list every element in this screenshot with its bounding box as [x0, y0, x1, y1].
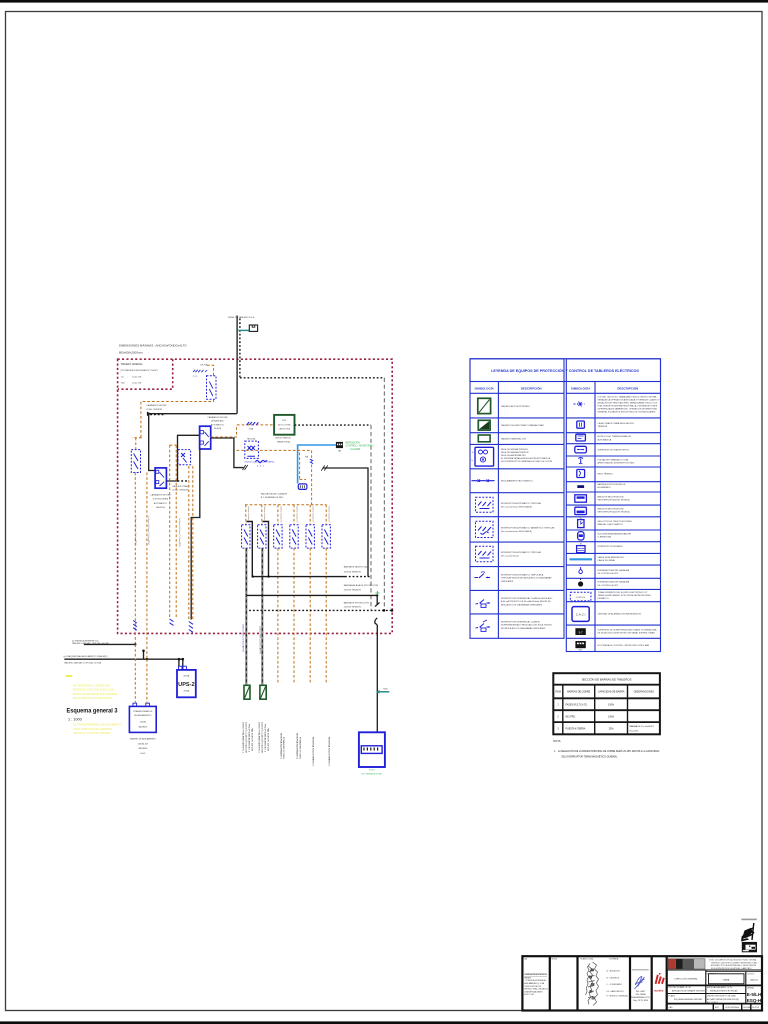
- junction on neutro bus: [252, 575, 254, 577]
- svg-text:ING. DAFT: ING. DAFT: [636, 990, 646, 993]
- svg-text:UPS/AISLADO: UPS/AISLADO: [211, 420, 225, 423]
- svg-text:TÉRMICA: TÉRMICA: [598, 425, 608, 428]
- svg-text:2x4mm²+1x4mm²(T): 2x4mm²+1x4mm²(T): [295, 506, 298, 523]
- svg-text:NOTA:: NOTA:: [553, 739, 561, 743]
- svg-text:UNA ESPECIALIZANTE: UNA ESPECIALIZANTE: [524, 990, 543, 993]
- transfer switch S2 (cambiador UPS): [200, 426, 211, 449]
- compartment divider of TG enclosure: [118, 359, 173, 389]
- svg-text:CERTIFICO QUE ESTE DOCUMENTO R: CERTIFICO QUE ESTE DOCUMENTO RESPETA EL …: [711, 961, 758, 964]
- svg-text:ITEM: ITEM: [555, 691, 561, 694]
- svg-text:20 BUS TENSIÓN: 20 BUS TENSIÓN: [344, 571, 361, 574]
- svg-text:S-ALARM: S-ALARM: [350, 448, 360, 451]
- svg-text:3x25mm²+1x16mm²(T) 40mmØ: 3x25mm²+1x16mm²(T) 40mmØ: [261, 722, 264, 753]
- note salida stub: [172, 485, 190, 492]
- svg-text:ESC.: ESC.: [715, 1007, 720, 1009]
- battery BT (blue capsule): [298, 484, 307, 490]
- orange control run: [237, 450, 312, 504]
- squiggle blue 0-0-1: [256, 460, 268, 467]
- symbol breaker tripolar 1: [476, 497, 494, 512]
- svg-text:CAMBIADOR DE RED: CAMBIADOR DE RED: [146, 404, 167, 407]
- svg-text:GENERAL P/CUADROS ELECTRÓNICOS: GENERAL P/CUADROS ELECTRÓNICOS; SUS AUXI…: [598, 410, 657, 413]
- svg-text:(En características REGULABLE): (En características REGULABLE): [501, 505, 532, 508]
- svg-text:CAJA TOMA DE TIMBA REGULACIÓN: CAJA TOMA DE TIMBA REGULACIÓN: [598, 422, 635, 425]
- svg-text:(En características): (En características): [501, 555, 519, 558]
- svg-text:CONTROL + MONITOREO: CONTROL + MONITOREO: [346, 445, 374, 447]
- symbol botonera black: [575, 641, 585, 652]
- note transformer caption: [130, 738, 157, 755]
- bus dashed from ATS to right riser: [295, 424, 372, 426]
- svg-text:(750 TABLEROS INTEGRADOS TG-ES: (750 TABLEROS INTEGRADOS TG-EST): [121, 369, 159, 372]
- note pozo tierra green: [362, 770, 383, 776]
- svg-text:2x4mm²+1x4mm²(T): 2x4mm²+1x4mm²(T): [247, 506, 250, 523]
- svg-text:(En características REGULABLE): (En características REGULABLE): [501, 530, 532, 533]
- svg-text:BARRA DE PROTECCIÓN: BARRA DE PROTECCIÓN: [344, 601, 369, 604]
- svg-text:TOMACORRIENTE DEL EQUIPO ELECT: TOMACORRIENTE DEL EQUIPO ELECTRÓNICO P/: [598, 591, 648, 594]
- svg-text:2x10mm²+1x10mm²(T)-25mmØPVC: 2x10mm²+1x10mm²(T)-25mmØPVC: [147, 516, 150, 546]
- svg-text:MA: MA: [305, 455, 309, 458]
- breaker symbol on ATS feed: [247, 422, 259, 425]
- svg-text:S1: S1: [579, 518, 581, 520]
- barras table frame: [553, 673, 660, 734]
- conduit orange pair 2: [189, 466, 193, 620]
- feeder risers below breakers (gray duct): [246, 548, 262, 685]
- svg-text:PLANO LOCAL: PLANO LOCAL: [580, 958, 593, 961]
- stamp box: [742, 942, 757, 952]
- svg-text:PRIVADO S: PRIVADO S: [598, 597, 610, 600]
- svg-text:DE CONTROL A DIST.: DE CONTROL A DIST.: [598, 584, 619, 587]
- svg-text:TRANSFORMADOR: TRANSFORMADOR: [133, 710, 153, 713]
- svg-text:INTERRUPTOR DIFERENCIAL CLASE: INTERRUPTOR DIFERENCIAL CLASE A: [501, 620, 540, 623]
- bottom row cells: [713, 1004, 751, 1011]
- symbol tomacorriente control: [570, 592, 591, 601]
- wire transfer bottom feeder: [191, 449, 200, 620]
- svg-text:DISTRITO/PROV/DPTO DE LIMA: DISTRITO/PROV/DPTO DE LIMA: [707, 995, 736, 998]
- svg-text:EL TRANSFORMADOR DE AISLAMIENT: EL TRANSFORMADOR DE AISLAMIENTO: [73, 724, 121, 727]
- svg-text:P/TABLERO FUTURO: P/TABLERO FUTURO: [298, 737, 301, 759]
- svg-text:H=2.20m: H=2.20m: [630, 730, 639, 732]
- svg-text:LEYENDA DE EQUIPOS DE PROTECCI: LEYENDA DE EQUIPOS DE PROTECCIÓN Y CONTR…: [491, 368, 639, 373]
- continuation arrow: [243, 465, 248, 470]
- svg-text:DEL INTERRUPTOR GENERAL EN CAS: DEL INTERRUPTOR GENERAL EN CASO DE CORTE: [501, 460, 553, 463]
- note barra proteccion: [344, 601, 369, 608]
- svg-text:(3 POSICIONES): (3 POSICIONES): [153, 499, 169, 501]
- svg-text:BARRA DE NEUTRO (N): BARRA DE NEUTRO (N): [344, 566, 368, 569]
- wire orange Q0 to bus: [132, 399, 214, 449]
- symbol sensor black: [578, 579, 583, 587]
- cell D approval line: [632, 969, 649, 970]
- bus UPS feed 1: [84, 643, 135, 645]
- svg-text:BARRA DE Cu, H=SOFT: BARRA DE Cu, H=SOFT: [630, 725, 655, 728]
- svg-text:FECHA: FECHA: [744, 1006, 751, 1009]
- svg-text:INDICA EN LOS DIAGRAMAS UNIFIL: INDICA EN LOS DIAGRAMAS UNIFILARES: [501, 604, 543, 607]
- svg-text:EL SISTEMA SEÑALA REGULACIÓN A: EL SISTEMA SEÑALA REGULACIÓN AUTOMÁTICA: [501, 457, 551, 460]
- symbol breaker tripolar 2: [476, 546, 494, 562]
- svg-text:VIENE DE TABLERO TG-E: VIENE DE TABLERO TG-E: [228, 316, 255, 319]
- svg-text:2x16mm²+1x16mm²(T)-25mmØPVC: 2x16mm²+1x16mm²(T)-25mmØPVC: [178, 518, 181, 548]
- svg-text:P/TABLERO FUTURO: P/TABLERO FUTURO: [282, 737, 285, 759]
- wire orange tap CH-P4L: [207, 365, 214, 376]
- terminal marks blue: [189, 622, 193, 633]
- svg-text:TAB. ELECTR. 40mmØ: TAB. ELECTR. 40mmØ: [250, 728, 253, 751]
- svg-text:2x16mm²+1x16mm²(T)-25mmØPVC: 2x16mm²+1x16mm²(T)-25mmØPVC: [189, 518, 192, 548]
- svg-text:DE 30 MINUTOS A PLENA CARGA: DE 30 MINUTOS A PLENA CARGA: [73, 697, 113, 700]
- wire down to cambiador: [149, 414, 155, 471]
- svg-text:TABLERO AUTOSOPORTADO: TABLERO AUTOSOPORTADO: [501, 405, 530, 408]
- svg-text:LAM-04: LAM-04: [750, 979, 758, 982]
- svg-text:TAB. ELECTR. 40mmØ: TAB. ELECTR. 40mmØ: [266, 728, 269, 751]
- title block outer frame: [522, 956, 762, 1010]
- svg-text:FIJA, VERDE EN INTERMITENTE FA: FIJA, VERDE EN INTERMITENTE FALLA; P/INT…: [598, 404, 658, 407]
- svg-text:SUPERINMUNIZADO REGULADO DE 30: SUPERINMUNIZADO REGULADO DE 30mA, SEGÚN: [501, 624, 552, 627]
- symbol diferencial SI: [476, 620, 491, 631]
- svg-text:3x25mm²+1x16mm²(T) 40mmØ: 3x25mm²+1x16mm²(T) 40mmØ: [245, 722, 248, 753]
- symbol tablero autosoportado: [478, 398, 491, 413]
- svg-text:ESQUEMA GENERAL UNIFILAR: ESQUEMA GENERAL UNIFILAR: [674, 998, 703, 1001]
- svg-text:ENCLAVAMIENTO AUTOMÁTICO: ENCLAVAMIENTO AUTOMÁTICO: [501, 480, 533, 483]
- svg-text:2x25mm² NYY+1x16mm² NYY(T): 2x25mm² NYY+1x16mm² NYY(T): [258, 626, 261, 654]
- svg-text:REG-36L: REG-36L: [247, 439, 257, 441]
- svg-text:63 A (N): 63 A (N): [214, 427, 222, 430]
- svg-text:INTERRUPTOR AUTOMÁTICO UNIPOLA: INTERRUPTOR AUTOMÁTICO UNIPOLAR A: [501, 573, 544, 576]
- neutral taps black: [247, 522, 269, 577]
- cell A heading: [524, 958, 549, 997]
- terminal blue marks on control run: [310, 459, 313, 464]
- svg-text:C : COMENTARIO: C : COMENTARIO: [607, 983, 623, 986]
- svg-text:AV. SANTORENA TERCERA PISO(8): AV. SANTORENA TERCERA PISO(8): [707, 998, 739, 1001]
- junction at proteccion bus end: [391, 609, 394, 612]
- svg-text:LEYENDA: LEYENDA: [609, 958, 619, 961]
- svg-text:20 BUS TENSIÓN: 20 BUS TENSIÓN: [344, 588, 361, 591]
- svg-text:BARRAS DE COBRE: BARRAS DE COBRE: [567, 691, 590, 694]
- svg-text:UNIFILARES: UNIFILARES: [501, 580, 514, 583]
- svg-text:GAMA: GAMA: [723, 979, 730, 982]
- svg-text:INTERRUPTOR AUTOMÁTICO TRIPOLA: INTERRUPTOR AUTOMÁTICO TRIPOLAR: [501, 502, 542, 505]
- legend column dividers: [498, 382, 595, 652]
- terminal marks blue: [170, 619, 174, 625]
- svg-text:BORNE/ACTIVACIÓN V/ALARMA: BORNE/ACTIVACIÓN V/ALARMA: [598, 581, 630, 584]
- svg-text:240A: 240A: [249, 427, 254, 430]
- symbol rele termico: [577, 470, 585, 478]
- svg-text:RELE DE AMPERÍMETRO: RELE DE AMPERÍMETRO: [501, 454, 526, 457]
- svg-text:NEUTRO: NEUTRO: [566, 717, 576, 719]
- tablero general enclosure TG (maroon dashed): [118, 359, 393, 633]
- svg-text:RELE DE MÁXIMA TENSIÓN: RELE DE MÁXIMA TENSIÓN: [501, 451, 529, 454]
- svg-text:25kVA, 3Ø: 25kVA, 3Ø: [138, 742, 148, 745]
- color strip: [668, 959, 705, 969]
- junction tap on bus2: [142, 650, 145, 653]
- note NOTA: [553, 739, 659, 758]
- svg-text:380/380V: 380/380V: [138, 748, 148, 750]
- svg-text:AUTOMÁTICA: AUTOMÁTICA: [598, 438, 612, 441]
- svg-text:TRANSITORIA: TRANSITORIA: [276, 440, 290, 443]
- svg-text:CÓDIGO: CÓDIGO: [747, 972, 755, 975]
- svg-text:DIFERENCIALES TAMBIÉN IND. OPE: DIFERENCIALES TAMBIÉN IND. OPERACIÓN DE …: [598, 407, 658, 410]
- symbol contactor marks: [574, 402, 585, 407]
- svg-text:Ts: Ts: [472, 452, 474, 454]
- junction bus1/feeder: [134, 643, 136, 645]
- symbol diferencial A: [476, 600, 491, 608]
- svg-text:RESERVA SOLO ESPACIO 6: RESERVA SOLO ESPACIO 6: [328, 737, 331, 767]
- svg-text:PROYECTO AMPL. N° 34: PROYECTO AMPL. N° 34: [669, 986, 691, 989]
- svg-text:E-5/LH: E-5/LH: [747, 992, 762, 998]
- bus UPS feed 2: [64, 658, 183, 660]
- svg-text:ATS: ATS: [282, 419, 286, 422]
- symbol pulsador: [578, 458, 583, 464]
- svg-text:25kVA: 25kVA: [140, 720, 147, 723]
- wire incoming feeder neutral (dashed): [239, 319, 241, 378]
- bus proteccion aislada: [247, 594, 377, 596]
- svg-text:10-2018: 10-2018: [752, 1007, 759, 1009]
- disconnect hook: [375, 618, 378, 625]
- symbol tablero empotrar: [478, 420, 490, 430]
- svg-text:CAPACIDAD DE BARRA: CAPACIDAD DE BARRA: [598, 691, 625, 694]
- svg-text:20kVA: 20kVA: [184, 690, 190, 693]
- changeover switch S1 (cambiador de red): [155, 468, 166, 488]
- svg-text:AUTOMÁTICO: AUTOMÁTICO: [154, 502, 168, 505]
- orange drops into transformer: [135, 644, 147, 703]
- UPS U2 box: [177, 670, 196, 697]
- svg-text:Reg. CIP N° 8934: Reg. CIP N° 8934: [633, 1000, 648, 1002]
- breaker row QF1..QF6 dashed boxes: [242, 525, 331, 548]
- svg-text:ALUMBRADO: ALUMBRADO: [598, 486, 612, 489]
- svg-text:AIRE ABASTADO y TODA: AIRE ABASTADO y TODA: [524, 982, 545, 985]
- svg-text:PLANO: PLANO: [669, 995, 676, 998]
- svg-text:50A-3P(4): 50A-3P(4): [156, 506, 165, 509]
- bus proteccion (dashed): [249, 609, 392, 611]
- legend outer frame right: [566, 359, 660, 652]
- svg-text:DE SUJECIÓN C/DISPOSITIVO DE S: DE SUJECIÓN C/DISPOSITIVO DE SEÑAL SUPRE…: [598, 632, 656, 635]
- svg-text:2x25mm² NYY+1x16mm² NYY(T): 2x25mm² NYY+1x16mm² NYY(T): [242, 624, 245, 652]
- svg-text:RELE DE MÍNIMA TENSIÓN: RELE DE MÍNIMA TENSIÓN: [501, 448, 528, 451]
- svg-text:TABLERO GENERAL: TABLERO GENERAL: [121, 363, 144, 366]
- svg-text:SIMBOLOGÍA: SIMBOLOGÍA: [475, 385, 495, 390]
- svg-text:ALT. CUSCO: ALT. CUSCO: [707, 1001, 719, 1004]
- svg-text:INTERRUPTOR AUTOMÁTICO TRIPOLA: INTERRUPTOR AUTOMÁTICO TRIPOLAR: [501, 551, 542, 554]
- svg-text:RESERVA EQUIPADA N 3: RESERVA EQUIPADA N 3: [279, 733, 282, 760]
- svg-text:TB4: TB4: [338, 451, 341, 453]
- lamina number big: [747, 992, 762, 1004]
- svg-text:PARA EL:: PARA EL:: [524, 976, 532, 979]
- note bus2 labels: [64, 655, 108, 664]
- teal tick on earth conductor: [376, 689, 389, 694]
- junction bus2/UPS wire A: [178, 658, 181, 661]
- legend outer frame left: [470, 359, 564, 639]
- cell D signer name: [631, 990, 651, 1002]
- svg-text:ATS 16 TERA: ATS 16 TERA: [278, 423, 291, 426]
- breaker Q0 (dashed box under CH-P4L): [207, 376, 217, 399]
- svg-text:LOS IND. LED ROJO, TRABAJANDO: LOS IND. LED ROJO, TRABAJANDO EN EL CENT…: [598, 395, 658, 398]
- svg-text:SALIDA P/TOMAC.: SALIDA P/TOMAC.: [172, 485, 190, 488]
- cell D signature (blue): [635, 976, 645, 989]
- conduit spec texts vertical along left feeders: [134, 516, 192, 548]
- svg-text:1. LA SELECCIÓN DE LA BARRA: 1. LA SELECCIÓN DE LA BARRA PRINCIPAL DE…: [554, 750, 660, 753]
- svg-text:VER ESPECIFICACIÓN TÉCNICA: VER ESPECIFICACIÓN TÉCNICA: [598, 511, 631, 514]
- feeder orange risers: [278, 548, 326, 684]
- svg-text:SALIDA P/ALUM. S-ALARM: SALIDA P/ALUM. S-ALARM: [261, 492, 287, 495]
- symbol bucle cilindro: [578, 532, 584, 540]
- svg-text:OBSERVACIONES: OBSERVACIONES: [633, 691, 654, 694]
- svg-text:ESQ-H: ESQ-H: [747, 998, 762, 1004]
- note salida alum: [261, 492, 287, 498]
- svg-text:ELECT. S.M.: ELECT. S.M.: [524, 994, 534, 996]
- legend title row: [470, 359, 661, 382]
- wires into UPS-2: [179, 659, 183, 670]
- symbol linea senal (cyan bar): [570, 558, 593, 560]
- bus neutro N: [254, 576, 346, 578]
- svg-text:TØ25: TØ25: [383, 689, 388, 691]
- note bus1 labels: [72, 640, 109, 645]
- svg-text:D4 : HABILITACIÓN: D4 : HABILITACIÓN: [607, 990, 625, 993]
- svg-text:POZO: POZO: [369, 770, 375, 772]
- riser dashed 2: [370, 425, 372, 609]
- symbol barra equipotencial: [577, 485, 584, 488]
- svg-text:1/1000 INDICADA: 1/1000 INDICADA: [725, 1006, 740, 1009]
- svg-text:PVC-P SUBE ALIMENTA T-2: PVC-P SUBE ALIMENTA T-2: [264, 724, 267, 753]
- symbol tablero riel: [478, 435, 490, 442]
- svg-text:SE INSTALARA EL SISTEMA DE: SE INSTALARA EL SISTEMA DE: [73, 685, 110, 688]
- band proyecto: [669, 986, 739, 992]
- svg-text:O APERTURA: O APERTURA: [598, 536, 612, 539]
- wire bus to neutral riser: [323, 468, 369, 577]
- svg-text:CIRCUITO ALIMENTADOR N 1: CIRCUITO ALIMENTADOR N 1: [242, 722, 245, 753]
- junction bus2/UPS wire B: [182, 658, 185, 661]
- svg-text:INSTALACIONES ELÉCTRICAS: INSTALACIONES ELÉCTRICAS: [710, 990, 738, 993]
- stamp caption: [741, 919, 756, 921]
- page bottom edge bar: [0, 1021, 768, 1024]
- riser dashed right side: [383, 378, 385, 610]
- note TABLERO GENERAL: [121, 363, 159, 384]
- svg-text:INGENIERÍA ELECTR.: INGENIERÍA ELECTR.: [631, 996, 651, 999]
- regulator REG-36L dashed box: [245, 439, 259, 459]
- svg-text:RELE TÉRMICO: RELE TÉRMICO: [598, 472, 614, 475]
- svg-text:- CONSULTA EXTERNA DEL: - CONSULTA EXTERNA DEL: [524, 979, 546, 982]
- svg-text:ING. TANIA: ING. TANIA: [636, 993, 647, 996]
- yellow annotation lines lower: [73, 724, 121, 735]
- legend left descriptions: [501, 405, 555, 630]
- svg-text:TENER LA IMPLEMENT. ELECTRÓNIC: TENER LA IMPLEMENT. ELECTRÓNICA P/MONITO…: [598, 594, 652, 597]
- feeder dashed overlay: [246, 548, 262, 685]
- wire cambiador output: [166, 435, 199, 481]
- cell C legend list: [607, 970, 628, 998]
- feeder orange to UPS transformer left: [134, 473, 136, 645]
- symbol sensor v: [579, 567, 583, 574]
- band ubicacion: [669, 995, 740, 1004]
- symbol supresor transitorios black: [575, 628, 585, 635]
- svg-text:RESERVA EQUIPADA N 4: RESERVA EQUIPADA N 4: [296, 733, 299, 760]
- svg-text:BUCLE/BOBINA PARA ENGANCHE: BUCLE/BOBINA PARA ENGANCHE: [598, 532, 632, 535]
- feeder labels vertical: [247, 506, 330, 523]
- tablero symbol T2 (green): [260, 685, 266, 699]
- distribution bus orange: [245, 504, 327, 506]
- logo (red): [654, 973, 664, 993]
- wire main horizontal to changeover: [149, 413, 237, 415]
- svg-text:A : UBICACIÓN: A : UBICACIÓN: [607, 970, 621, 973]
- svg-text:DIRECCIÓN GENERAL: DIRECCIÓN GENERAL: [675, 978, 699, 981]
- yellow annotation lines upper: [73, 685, 117, 701]
- stamp signature scribble: [744, 923, 755, 940]
- svg-text:MÓDULO DEL TRANSFORMADOR: MÓDULO DEL TRANSFORMADOR: [598, 435, 632, 438]
- svg-text:20´ALL TENSIÓN: 20´ALL TENSIÓN: [146, 408, 162, 411]
- svg-text:BANCO DE BATERIAS P/AUTONOMIA: BANCO DE BATERIAS P/AUTONOMIA: [73, 693, 117, 696]
- svg-text:AMPLIACIÓN DE REMATE TERCERO: AMPLIACIÓN DE REMATE TERCERO: [672, 990, 705, 993]
- svg-text:DEL INTERRUPTOR TERMOMAGNÉTICO: DEL INTERRUPTOR TERMOMAGNÉTICO GENERAL: [562, 755, 619, 758]
- svg-text:25%: 25%: [609, 728, 614, 730]
- svg-text:S-T: S-T: [579, 630, 584, 634]
- svg-text:2x10mm²+1x10mm²(T)-25mmØPVC: 2x10mm²+1x10mm²(T)-25mmØPVC: [134, 516, 137, 546]
- svg-text:CAD: CAD: [669, 1006, 674, 1009]
- transformer TR1 box: [129, 706, 156, 732]
- svg-text:380/380V: 380/380V: [138, 727, 148, 729]
- svg-text:NOTA: NOTA: [552, 958, 558, 961]
- svg-text:MANUAL-O-AUTOMÁTICO: MANUAL-O-AUTOMÁTICO: [598, 523, 624, 526]
- svg-text:100%: 100%: [608, 717, 614, 719]
- svg-text:APROBADO POR LA MUNICIPALIDAD: APROBADO POR LA MUNICIPALIDAD Y SE ENCUE…: [711, 964, 757, 967]
- svg-text:SERA INSTALADO EN GABINETE: SERA INSTALADO EN GABINETE: [73, 728, 112, 731]
- svg-text:SECCIÓN DE BARRAS DE TABLEROS: SECCIÓN DE BARRAS DE TABLEROS: [582, 677, 632, 682]
- symbol supresor: [575, 446, 587, 453]
- note transfer caption: [207, 416, 228, 430]
- legend right row lines: [566, 418, 660, 638]
- svg-text:TABLERO-CARGAS 1 UPS 60A - 60: TABLERO-CARGAS 1 UPS 60A - 60 KVA: [64, 661, 102, 664]
- breaker CH-P4L symbol: [193, 370, 207, 373]
- svg-text:CAMBIADOR DE RED: CAMBIADOR DE RED: [150, 493, 171, 496]
- svg-text:20´ALL TENSIÓN: 20´ALL TENSIÓN: [172, 489, 188, 492]
- svg-text:PUESTA A TIERRA: PUESTA A TIERRA: [566, 727, 586, 730]
- svg-text:B.T. GENERADOR RED: B.T. GENERADOR RED: [261, 496, 284, 499]
- approval text right: [709, 959, 758, 970]
- svg-text:2x4mm²+1x4mm²(T): 2x4mm²+1x4mm²(T): [328, 506, 331, 523]
- note ATS caption: [275, 437, 291, 444]
- symbol selector: [578, 518, 584, 528]
- svg-text:DE AISLAMIENTO: DE AISLAMIENTO: [134, 714, 152, 717]
- note cambiador caption: [150, 493, 171, 509]
- svg-text:C.A.C.I: C.A.C.I: [576, 613, 586, 617]
- svg-text:G-I : 15-40 kW: G-I : 15-40 kW: [121, 376, 141, 378]
- svg-text:DE CONTROL A DIST.: DE CONTROL A DIST.: [598, 572, 619, 575]
- svg-text:SIMBOLOGÍA: SIMBOLOGÍA: [571, 385, 591, 390]
- svg-text:TABLERO PARA RIEL DIN: TABLERO PARA RIEL DIN: [501, 438, 526, 441]
- note salida cargador: [146, 404, 167, 411]
- svg-text:DE TIERRA ROTUND: DE TIERRA ROTUND: [362, 773, 383, 776]
- svg-text:COMITÉ ELECTRICISTA PROYECTOS: COMITÉ ELECTRICISTA PROYECTOS: [524, 973, 547, 976]
- breaker Q2 dashed box: [178, 450, 191, 465]
- note barra neutro: [344, 566, 368, 574]
- svg-text:TRANSF. DE AISLAMIENTO: TRANSF. DE AISLAMIENTO: [130, 738, 157, 741]
- symbol central alarma CACI: [572, 607, 589, 622]
- svg-text:SERVICIO GRAL. UBICADO A: SERVICIO GRAL. UBICADO A: [524, 988, 548, 991]
- svg-text:800x600x2000mm.: 800x600x2000mm.: [119, 351, 144, 355]
- conduit orange pair: [170, 445, 177, 617]
- symbol breaker magnetico: [476, 521, 494, 537]
- bus dashed TG top (barra): [240, 377, 385, 379]
- svg-text:BARRA AISLADA DE PROTECCIÓN: BARRA AISLADA DE PROTECCIÓN: [344, 584, 379, 587]
- svg-text:APERTURA DEL INTERRUPTOR GEN.: APERTURA DEL INTERRUPTOR GEN.: [598, 462, 635, 465]
- symbol breaker unipolar: [475, 572, 491, 578]
- breaker drops orange: [246, 505, 326, 525]
- svg-text:SE INDICA EN LOS DIAGRAMAS UNI: SE INDICA EN LOS DIAGRAMAS UNIFILARES: [501, 627, 546, 630]
- svg-text:NOTA : DOCUMENTO OFICIAL SEGUN: NOTA : DOCUMENTO OFICIAL SEGUNDO PLANO O…: [709, 959, 757, 962]
- svg-text:REPOSICIÓN: REPOSICIÓN: [346, 441, 361, 444]
- section F inner lines: [667, 970, 762, 1004]
- green tick at junction: [375, 591, 379, 595]
- svg-text:2x4mm²+1x4mm²(T): 2x4mm²+1x4mm²(T): [312, 506, 315, 523]
- wire transfer right output: [211, 438, 244, 468]
- meter M1 box: [249, 325, 257, 331]
- svg-text:W-D : 15-40 kW: W-D : 15-40 kW: [121, 382, 141, 384]
- junction on proteccion bus: [383, 609, 386, 612]
- svg-text:UPS-2: UPS-2: [178, 682, 194, 688]
- svg-text:Is: Is: [472, 460, 474, 462]
